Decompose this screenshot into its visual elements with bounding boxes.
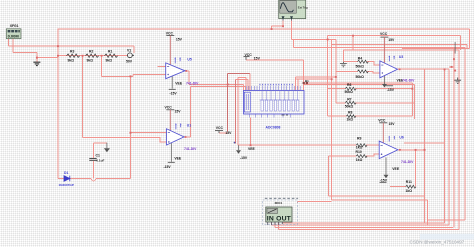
svg-text:50V: 50V	[126, 60, 133, 64]
svg-text:D1: D1	[64, 171, 68, 175]
svg-text:VEE: VEE	[175, 82, 183, 86]
svg-text:U1: U1	[187, 124, 191, 128]
svg-text:15V: 15V	[389, 122, 396, 126]
svg-text:50kΩ: 50kΩ	[356, 64, 365, 68]
svg-text:VCC: VCC	[378, 118, 386, 122]
svg-text:R10: R10	[356, 150, 362, 154]
svg-text:R3: R3	[70, 50, 74, 54]
svg-text:1N4007GP: 1N4007GP	[59, 183, 74, 187]
svg-text:VEE: VEE	[248, 147, 256, 151]
svg-text:1kΩ: 1kΩ	[406, 189, 413, 193]
svg-text:U5: U5	[187, 57, 191, 61]
svg-text:-15V: -15V	[164, 165, 172, 169]
svg-text:741-DIV: 741-DIV	[402, 78, 415, 82]
svg-text:XDC1: XDC1	[275, 201, 283, 205]
svg-text:V1: V1	[127, 48, 131, 52]
svg-text:R6: R6	[347, 83, 351, 87]
svg-text:R8: R8	[348, 111, 352, 115]
svg-text:50kΩ: 50kΩ	[345, 104, 354, 108]
svg-text:15V: 15V	[176, 38, 183, 42]
svg-text:9kΩ: 9kΩ	[106, 59, 113, 63]
svg-text:VEE: VEE	[392, 167, 400, 171]
svg-text:0.1uF: 0.1uF	[96, 158, 104, 162]
svg-text:1kΩ: 1kΩ	[356, 158, 363, 162]
svg-text:15V: 15V	[388, 38, 395, 42]
svg-text:R4: R4	[358, 57, 362, 61]
svg-text:R7: R7	[347, 97, 351, 101]
svg-text:R1: R1	[108, 50, 112, 54]
svg-text:XFG1: XFG1	[10, 24, 19, 28]
svg-text:1kΩ: 1kΩ	[347, 118, 354, 122]
svg-text:-15V: -15V	[240, 156, 248, 160]
svg-text:U6: U6	[399, 136, 403, 140]
svg-text:741-DIV: 741-DIV	[184, 147, 197, 151]
svg-text:741-DIV: 741-DIV	[186, 81, 199, 85]
svg-text:9kΩ: 9kΩ	[68, 59, 75, 63]
svg-text:VEE: VEE	[174, 157, 182, 161]
svg-text:VCC: VCC	[166, 32, 174, 36]
svg-text:VCC: VCC	[245, 53, 253, 57]
svg-text:R9: R9	[357, 137, 361, 141]
svg-text:50kΩ: 50kΩ	[356, 75, 365, 79]
svg-text:C1: C1	[96, 154, 100, 158]
svg-text:ADC0808: ADC0808	[266, 126, 281, 130]
svg-text:15V: 15V	[225, 131, 232, 135]
svg-text:9kΩ: 9kΩ	[87, 59, 94, 63]
svg-text:R2: R2	[89, 50, 93, 54]
svg-text:U3: U3	[399, 55, 403, 59]
svg-text:0.00M: 0.00M	[8, 34, 20, 39]
svg-text:VCC: VCC	[216, 126, 224, 130]
svg-text:-15V: -15V	[380, 179, 388, 183]
svg-text:15V: 15V	[254, 57, 261, 61]
svg-text:B1: B1	[305, 79, 309, 83]
svg-text:15V: 15V	[175, 110, 182, 114]
svg-text:CSDN @weixin_47510497: CSDN @weixin_47510497	[410, 240, 465, 245]
svg-text:-15V: -15V	[387, 88, 395, 92]
svg-text:VCC: VCC	[165, 106, 173, 110]
svg-text:741-DIV: 741-DIV	[401, 160, 414, 164]
svg-text:R11: R11	[406, 180, 412, 184]
svg-text:50kΩ: 50kΩ	[345, 90, 354, 94]
svg-text:IN OUT: IN OUT	[267, 215, 292, 222]
svg-text:VCC: VCC	[380, 32, 388, 36]
svg-text:Ext Trig: Ext Trig	[298, 6, 308, 10]
svg-text:-15V: -15V	[170, 92, 178, 96]
